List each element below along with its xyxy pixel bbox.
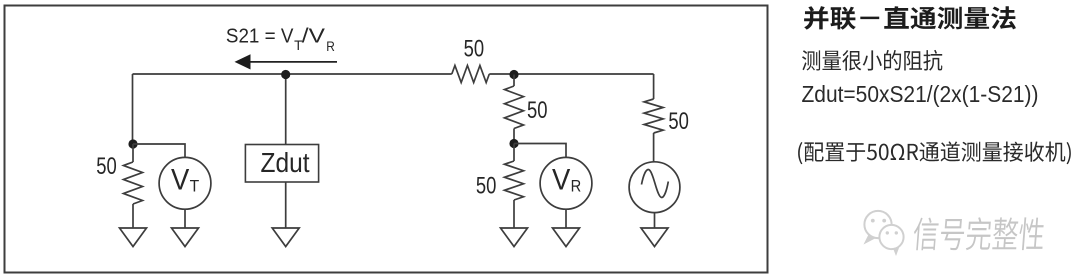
wire: node A to VT — [133, 144, 185, 158]
node junction dot C (bus right) — [509, 70, 518, 79]
resistor R2 50 (series) — [452, 66, 490, 83]
wire: node D to VR — [514, 144, 566, 158]
wire: bus to Zdut — [285, 74, 287, 145]
note (配置于50ΩR通道测量接收机) — [798, 141, 1071, 164]
arrow S21 direction — [249, 61, 337, 63]
ground (below VR) — [553, 228, 580, 247]
ground (below Zdut) — [272, 228, 299, 247]
wire: source to ground — [654, 213, 656, 228]
svg-text:V: V — [552, 164, 570, 197]
svg-text:/V: /V — [302, 26, 326, 48]
voltmeter VR — [540, 157, 592, 209]
label S21 = VT/VR — [226, 26, 335, 54]
svg-text:50: 50 — [96, 153, 117, 180]
svg-text:T: T — [190, 177, 200, 196]
ground (below source) — [641, 228, 668, 247]
ground (below R4) — [501, 228, 528, 247]
svg-text:50: 50 — [476, 173, 497, 200]
watermark wechat icon — [864, 211, 904, 256]
resistor R3 50 (upper shunt) — [505, 86, 524, 129]
wire: VT to ground — [184, 209, 186, 228]
svg-text:S21 = V: S21 = V — [226, 26, 294, 48]
border frame — [5, 6, 768, 273]
voltmeter VT — [159, 157, 211, 209]
svg-text:R: R — [571, 177, 582, 196]
wire: VR to ground — [565, 209, 567, 228]
svg-text:Zdut=50xS21/(2x(1-S21)): Zdut=50xS21/(2x(1-S21)) — [802, 81, 1039, 107]
ground (below R1) — [120, 228, 147, 247]
resistor R5 50 (source) — [644, 99, 663, 133]
svg-text:50: 50 — [668, 108, 689, 135]
sine symbol — [642, 170, 669, 198]
svg-text:V: V — [171, 164, 189, 197]
wire: Zdut to ground — [285, 182, 287, 228]
title 并联－直通测量法 — [804, 6, 1016, 30]
svg-text:50: 50 — [527, 97, 548, 124]
node junction dot B (bus/Zdut) — [281, 70, 290, 79]
wire: left vertical drop — [132, 74, 134, 144]
subtitle 测量很小的阻抗 — [802, 50, 942, 71]
svg-text:R: R — [326, 39, 335, 54]
node junction dot A (left) — [128, 139, 137, 148]
wire: bus to source branch — [653, 74, 655, 99]
device Zdut box — [245, 145, 318, 183]
wire: main horizontal bus — [133, 73, 654, 75]
node junction dot D — [509, 139, 518, 148]
svg-text:Zdut: Zdut — [261, 147, 310, 178]
watermark text 信号完整性 — [912, 217, 1046, 252]
resistor R4 50 (lower shunt) — [505, 161, 524, 200]
ground (below VT) — [172, 228, 199, 247]
source V1 (sine generator) — [629, 162, 680, 213]
svg-text:50: 50 — [464, 36, 485, 63]
resistor R1 50 (left shunt) — [124, 162, 143, 204]
